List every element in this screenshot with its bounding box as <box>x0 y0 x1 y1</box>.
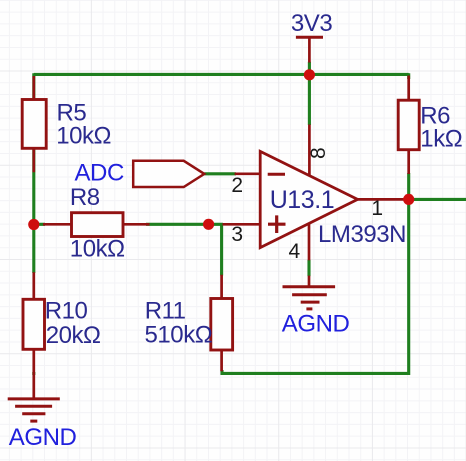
svg-text:AGND: AGND <box>282 310 350 337</box>
svg-text:1: 1 <box>371 197 383 220</box>
svg-text:R8: R8 <box>70 184 100 211</box>
svg-text:3V3: 3V3 <box>291 10 332 37</box>
svg-text:2: 2 <box>231 174 243 197</box>
svg-text:U13.1: U13.1 <box>270 186 334 214</box>
svg-text:510kΩ: 510kΩ <box>145 321 213 348</box>
svg-text:R11: R11 <box>145 297 186 324</box>
svg-text:1kΩ: 1kΩ <box>420 126 462 153</box>
svg-text:10kΩ: 10kΩ <box>56 122 111 149</box>
svg-text:10kΩ: 10kΩ <box>70 236 125 263</box>
svg-text:4: 4 <box>289 240 301 263</box>
svg-text:8: 8 <box>307 147 330 159</box>
svg-text:LM393N: LM393N <box>318 221 406 248</box>
svg-text:3: 3 <box>231 223 243 246</box>
svg-text:ADC: ADC <box>75 160 124 187</box>
svg-text:AGND: AGND <box>9 424 77 451</box>
svg-text:20kΩ: 20kΩ <box>46 322 101 349</box>
svg-text:R10: R10 <box>45 297 88 324</box>
